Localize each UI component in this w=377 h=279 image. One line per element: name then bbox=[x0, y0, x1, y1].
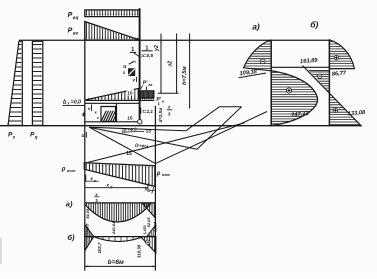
svg-text:54,05: 54,05 bbox=[85, 208, 90, 219]
displacement square bbox=[128, 68, 135, 76]
svg-text:=0,0: =0,0 bbox=[71, 99, 81, 105]
wall left vertical bbox=[84, 22, 86, 126]
load P_q rectangle bbox=[32, 41, 42, 125]
load P_v strip bbox=[86, 88, 139, 100]
load P_vq strip bbox=[85, 10, 140, 17]
block P_vg bbox=[139, 91, 154, 98]
dimension tick at P_v level bbox=[158, 92, 179, 94]
svg-text:б): б) bbox=[67, 233, 75, 242]
wire fan line 1 bbox=[89, 127, 186, 131]
right extension vertical bbox=[154, 106, 156, 271]
svg-text:15: 15 bbox=[127, 116, 133, 122]
svg-text:240,61: 240,61 bbox=[111, 221, 116, 235]
axis b vertical bbox=[328, 40, 330, 127]
wire surface line bbox=[19, 39, 329, 41]
svg-text:13: 13 bbox=[146, 129, 152, 135]
svg-text:а): а) bbox=[66, 200, 73, 209]
load P_vgamma triangle bbox=[85, 22, 140, 41]
svg-text:х: х bbox=[167, 105, 171, 110]
load rho wedge bbox=[84, 163, 155, 187]
svg-text:15: 15 bbox=[126, 151, 132, 157]
wire slip top segment bbox=[220, 106, 242, 108]
svg-text:119,05: 119,05 bbox=[86, 223, 90, 235]
diagram a hatch bbox=[86, 203, 88, 206]
svg-text:а): а) bbox=[252, 21, 260, 31]
svg-text:б): б) bbox=[310, 19, 318, 29]
svg-text:q: q bbox=[35, 135, 38, 140]
scan smudge left edge bbox=[0, 238, 2, 264]
svg-text:v: v bbox=[132, 78, 135, 83]
svg-text:у2: у2 bbox=[154, 45, 160, 52]
minus circle lobe a bbox=[260, 59, 265, 64]
svg-text:вq: вq bbox=[73, 15, 79, 20]
diagram b right upper triangle bbox=[147, 225, 155, 236]
dimension x_a bbox=[85, 175, 87, 182]
diagram a curve bbox=[85, 204, 151, 222]
plus circle lobe b bottom bbox=[333, 108, 338, 113]
diagram b left upper triangle bbox=[85, 225, 94, 237]
footing v arrow bbox=[91, 104, 93, 110]
svg-text:Δ: Δ bbox=[63, 99, 67, 105]
footing right vertical bbox=[116, 103, 118, 122]
wire moment diagonal bbox=[303, 66, 362, 127]
load P_f trapezoid bbox=[8, 41, 22, 125]
wire fan line 2 bbox=[89, 127, 197, 149]
wire slip rise R1 bbox=[186, 107, 220, 131]
svg-text:h=7,5м: h=7,5м bbox=[182, 66, 188, 85]
diagram b left triangle bbox=[85, 237, 94, 251]
svg-text:t=1,1: t=1,1 bbox=[142, 109, 153, 114]
diagram b right triangle bbox=[141, 237, 156, 253]
plus circle lobe b top bbox=[334, 55, 339, 60]
diagram a right triangle bbox=[142, 203, 155, 218]
dredge line bbox=[271, 66, 329, 68]
svg-text:max: max bbox=[162, 172, 171, 177]
svg-text:вг: вг bbox=[73, 30, 79, 35]
left extension vertical bbox=[84, 126, 86, 271]
hinge circle bbox=[138, 120, 142, 124]
svg-text:4: 4 bbox=[81, 133, 84, 138]
footing hatched block bbox=[101, 107, 116, 122]
dimension vertical bbox=[176, 34, 178, 94]
diagram a top line bbox=[85, 202, 156, 204]
wire fan line 3 bbox=[89, 127, 155, 163]
svg-text:d=2,5м: d=2,5м bbox=[158, 107, 163, 122]
dimension vertical bbox=[160, 34, 162, 94]
svg-text:1,453: 1,453 bbox=[143, 225, 147, 234]
svg-text:P′: P′ bbox=[143, 81, 148, 87]
block top arrow bbox=[145, 87, 147, 90]
wire ground line bbox=[0, 125, 362, 127]
wire slip line B bbox=[85, 123, 245, 163]
svg-text:310,38: 310,38 bbox=[136, 244, 141, 258]
minus circle b right bbox=[146, 240, 150, 244]
under block arrows bbox=[140, 97, 142, 100]
svg-text:b=6м: b=6м bbox=[108, 259, 124, 266]
footing top line bbox=[85, 102, 140, 104]
footing bottom line bbox=[85, 121, 138, 123]
svg-text:a=0,5: a=0,5 bbox=[141, 53, 153, 58]
pile vertical bbox=[139, 8, 141, 119]
diagram b middle curve bbox=[94, 237, 142, 242]
svg-text:вг: вг bbox=[148, 83, 152, 87]
svg-text:з2: з2 bbox=[167, 61, 173, 67]
svg-text:x: x bbox=[89, 176, 93, 181]
svg-text:102,7: 102,7 bbox=[97, 242, 102, 253]
svg-text:u: u bbox=[123, 64, 126, 70]
svg-text:ρ: ρ bbox=[156, 171, 161, 177]
dimension vertical bbox=[189, 34, 191, 109]
axis a vertical bbox=[270, 40, 272, 127]
wire slip rise R2 bbox=[197, 107, 242, 150]
label t=1.1 bbox=[140, 107, 142, 113]
svg-text:15: 15 bbox=[127, 91, 133, 97]
svg-text:x: x bbox=[144, 186, 148, 191]
svg-text:ρ: ρ bbox=[61, 167, 66, 173]
diagram b baseline bbox=[85, 236, 156, 238]
dimension b=6m line bbox=[85, 265, 156, 267]
wire slip line C bbox=[155, 112, 267, 164]
label 15 on strip bbox=[127, 89, 135, 95]
svg-text:тип: тип bbox=[67, 168, 76, 173]
svg-text:а: а bbox=[94, 179, 96, 183]
minus circle sliver bbox=[318, 74, 322, 78]
plus circle lobe a bbox=[286, 88, 291, 93]
